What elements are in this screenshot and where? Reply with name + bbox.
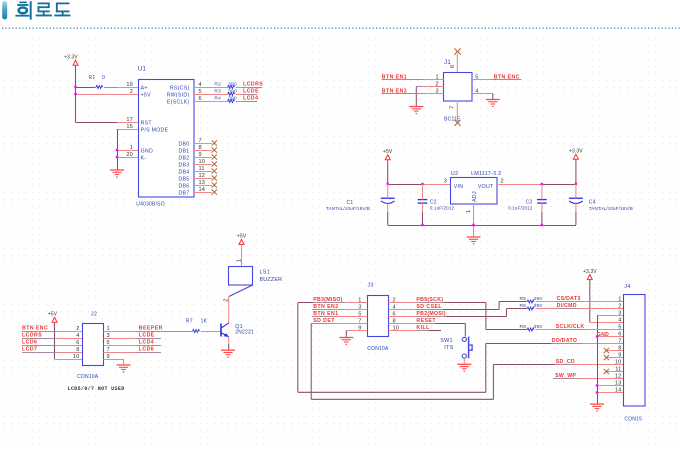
power +5V (buzzer) bbox=[237, 234, 247, 245]
junction U1 pin19 bbox=[74, 86, 76, 88]
net label BTN EN2 wire J3 pin3 bbox=[312, 304, 368, 310]
svg-text:1: 1 bbox=[236, 259, 242, 262]
wire J1 pin4 to ground bbox=[472, 94, 493, 100]
net label KILL wire J3 pin10 bbox=[388, 325, 441, 331]
capacitor C4 TANTAL/10uF/16V/B bbox=[569, 184, 633, 225]
svg-text:12: 12 bbox=[615, 373, 622, 379]
svg-text:R5: R5 bbox=[520, 296, 527, 302]
svg-text:SW1: SW1 bbox=[440, 338, 453, 344]
svg-text:5: 5 bbox=[199, 89, 202, 95]
svg-text:10: 10 bbox=[615, 359, 622, 365]
svg-text:2: 2 bbox=[501, 179, 504, 185]
svg-text:14: 14 bbox=[615, 387, 622, 393]
wire U1 pin5 to resistor bbox=[194, 94, 228, 96]
net label BEEPER wire to R7 bbox=[103, 326, 193, 332]
svg-text:CON15: CON15 bbox=[624, 416, 642, 422]
junction U1 GND pin bbox=[116, 149, 118, 151]
svg-text:7: 7 bbox=[449, 106, 455, 109]
svg-text:R4: R4 bbox=[214, 95, 221, 101]
no-connect X U1 pin 11 bbox=[212, 168, 217, 173]
net label SCLK/CLK wire to J4 pin5 bbox=[536, 324, 624, 330]
svg-text:SD_CD: SD_CD bbox=[556, 359, 575, 365]
svg-text:6: 6 bbox=[76, 340, 79, 346]
svg-text:19: 19 bbox=[126, 82, 133, 88]
svg-text:6: 6 bbox=[199, 96, 202, 102]
svg-text:LCD5/6/7 NOT USED: LCD5/6/7 NOT USED bbox=[68, 386, 125, 392]
net label LCDE wire from J2 bbox=[103, 333, 161, 339]
ground (J3 pin9) bbox=[339, 338, 353, 346]
junction C2 bottom bbox=[421, 224, 423, 226]
net label BTN EN1 wire J3 pin5 bbox=[312, 311, 368, 317]
wire U2 ADJ to ground bbox=[473, 204, 475, 237]
svg-text:2: 2 bbox=[76, 326, 79, 332]
svg-text:ITS: ITS bbox=[444, 345, 453, 351]
wire MOSI corner up to DI/CMD row bbox=[507, 309, 528, 317]
transistor Q1 2N2221 bbox=[221, 323, 254, 337]
connector J2 CON10A bbox=[73, 311, 110, 379]
svg-text:0.1uF/2012: 0.1uF/2012 bbox=[430, 206, 455, 211]
svg-text:VOUT: VOUT bbox=[478, 184, 494, 190]
capacitor C2 0.1uF/2012 bbox=[418, 184, 455, 225]
svg-text:DI/CMD: DI/CMD bbox=[557, 303, 577, 309]
svg-text:11: 11 bbox=[615, 366, 621, 372]
no-connect X J4 pin8 bbox=[604, 348, 609, 353]
svg-text:5: 5 bbox=[107, 340, 110, 346]
wire SD CSEL corner up to CS/DAT3 row bbox=[499, 302, 527, 310]
wire U1 P/S MODE to ground bbox=[117, 129, 138, 170]
svg-text:390: 390 bbox=[228, 88, 237, 94]
wire J4 pin13 stub bbox=[597, 385, 624, 387]
svg-text:J2: J2 bbox=[91, 311, 97, 317]
svg-text:CS/DAT3: CS/DAT3 bbox=[557, 296, 581, 302]
svg-text:2N2221: 2N2221 bbox=[235, 330, 254, 336]
wire J2 pin9 to ground bbox=[103, 359, 123, 365]
regulator U2 LM1117-3.3 bbox=[444, 171, 504, 213]
wire U1 DB4 stub bbox=[194, 171, 212, 173]
svg-text:10: 10 bbox=[199, 159, 206, 165]
net label LCD6 and wire to J2 bbox=[22, 340, 82, 346]
wire J4 pin9 stub bbox=[606, 357, 624, 359]
power +3.3V (J4) bbox=[583, 269, 597, 280]
wire U1 pin6 to resistor bbox=[194, 101, 228, 103]
svg-text:5: 5 bbox=[618, 324, 621, 330]
wire top rail left (VIN net) bbox=[388, 184, 450, 186]
header dotted rule bbox=[2, 27, 680, 29]
no-connect X U1 pin 13 bbox=[212, 182, 217, 187]
no-connect X U1 pin 9 bbox=[212, 154, 217, 159]
svg-text:6: 6 bbox=[450, 65, 456, 68]
resistor R7 value 1K bbox=[186, 319, 208, 333]
svg-text:BEEPER: BEEPER bbox=[139, 326, 163, 332]
svg-text:1: 1 bbox=[130, 145, 133, 151]
svg-text:DB4: DB4 bbox=[179, 169, 190, 175]
svg-text:3: 3 bbox=[444, 179, 447, 185]
svg-text:11: 11 bbox=[199, 166, 205, 172]
no-connect X J4 pin9 bbox=[604, 355, 609, 360]
svg-text:LCD4: LCD4 bbox=[243, 96, 258, 102]
wire J4 pin14 stub bbox=[597, 392, 624, 394]
svg-text:BUZZER: BUZZER bbox=[260, 277, 283, 283]
wire U1 pin19 row bbox=[76, 87, 139, 89]
svg-text:RESET: RESET bbox=[416, 318, 436, 324]
svg-text:2: 2 bbox=[130, 89, 133, 95]
svg-text:K-: K- bbox=[141, 155, 147, 161]
ground (J2 pin9) bbox=[117, 365, 131, 373]
svg-text:VIN: VIN bbox=[454, 184, 464, 190]
net label LCD6 wire from J2 bbox=[103, 347, 161, 353]
svg-text:R2: R2 bbox=[214, 81, 221, 87]
switch SW1 ITS bbox=[440, 337, 472, 359]
svg-text:390: 390 bbox=[228, 81, 237, 87]
note LCD5/6/7 NOT USED bbox=[68, 386, 125, 392]
svg-text:R6: R6 bbox=[520, 303, 527, 309]
svg-text:+3.3V: +3.3V bbox=[64, 55, 78, 61]
svg-text:7: 7 bbox=[199, 138, 202, 144]
connector J4 CON15 bbox=[615, 284, 645, 422]
svg-text:7: 7 bbox=[107, 347, 110, 353]
junction trunk pin14 bbox=[596, 391, 598, 393]
header pill icon bbox=[2, 1, 7, 20]
svg-text:LS1: LS1 bbox=[260, 269, 271, 275]
svg-text:+3.3V: +3.3V bbox=[569, 148, 583, 154]
svg-text:1: 1 bbox=[618, 296, 621, 302]
net label SW_WP wire to J4 pin12 bbox=[553, 373, 624, 379]
net label DO/DATO wire to J4 pin7 bbox=[551, 338, 624, 344]
wire J1 pin2 to ground bbox=[416, 87, 443, 107]
svg-text:PB2(MOSI): PB2(MOSI) bbox=[416, 311, 446, 317]
wire LS1 pin2 to Q1 collector bbox=[228, 297, 230, 323]
svg-text:+3.3V: +3.3V bbox=[583, 269, 597, 275]
svg-text:SW_WP: SW_WP bbox=[555, 373, 576, 379]
svg-text:GND: GND bbox=[141, 148, 153, 154]
net label PB3(MISO) wire J3 pin1 (loop to DO/DATO) bbox=[298, 297, 368, 303]
svg-text:RS(CS): RS(CS) bbox=[170, 85, 190, 91]
junction C3 bottom bbox=[541, 224, 543, 226]
wire U1 DB0 stub bbox=[194, 143, 212, 145]
junction C1 top bbox=[387, 183, 389, 185]
wire +3.3V vertical to U1 bbox=[75, 66, 77, 122]
net label BTN ENC and wire to J2 bbox=[22, 326, 82, 332]
wire +5V to LS1 pin1 bbox=[236, 245, 242, 267]
svg-text:9: 9 bbox=[107, 354, 110, 360]
svg-text:RST: RST bbox=[141, 120, 153, 126]
svg-text:LCD6: LCD6 bbox=[22, 340, 37, 346]
svg-text:3: 3 bbox=[107, 333, 110, 339]
net label GND wire J4 pin6 bbox=[597, 332, 624, 338]
svg-text:BTN ENC: BTN ENC bbox=[494, 74, 520, 80]
svg-text:8: 8 bbox=[618, 345, 621, 351]
power +3.3V (regulator) bbox=[569, 148, 583, 159]
junction C3 top bbox=[541, 183, 543, 185]
svg-text:12: 12 bbox=[199, 173, 206, 179]
junction ADJ bottom rail bbox=[472, 224, 474, 226]
no-connect X U1 pin 14 bbox=[212, 189, 217, 194]
no-connect X J1 pin 6 bbox=[454, 48, 460, 54]
capacitor C1 TANTAL/10uF/16V/B bbox=[326, 184, 395, 225]
svg-text:BTN ENC: BTN ENC bbox=[22, 326, 48, 332]
net label LCDRS and wire to J2 bbox=[22, 333, 82, 339]
svg-text:J3: J3 bbox=[368, 283, 374, 289]
wire U1 DB1 stub bbox=[194, 150, 212, 152]
resistor R5 value 390 bbox=[520, 296, 543, 303]
ground (J4 GND trunk) bbox=[590, 404, 604, 412]
ground (SW1) bbox=[457, 364, 471, 372]
wire bottom rail bbox=[388, 225, 576, 227]
wire J1 pin6 top stub bbox=[456, 54, 458, 72]
svg-text:PB5(SCK): PB5(SCK) bbox=[416, 297, 443, 303]
svg-text:8: 8 bbox=[76, 347, 79, 353]
net label CS/DAT3 wire to J4 pin1 bbox=[536, 296, 624, 302]
svg-text:U4030B/SO: U4030B/SO bbox=[136, 202, 164, 208]
wire and net label LCDRS bbox=[236, 82, 263, 88]
wire J4 pin3 to GND trunk bbox=[597, 316, 624, 337]
svg-text:17: 17 bbox=[126, 117, 133, 123]
wire and net label LCD4 bbox=[236, 96, 258, 102]
svg-text:9: 9 bbox=[618, 352, 621, 358]
wire U2 VOUT rail right bbox=[497, 184, 576, 186]
svg-text:TANTAL/10uF/16V/B: TANTAL/10uF/16V/B bbox=[589, 206, 633, 211]
wire J4 pin11 stub bbox=[606, 371, 624, 373]
resistor R8 value 390 bbox=[520, 324, 543, 331]
svg-text:1: 1 bbox=[466, 210, 472, 213]
svg-text:3: 3 bbox=[618, 310, 621, 316]
wire RESET down to SW1 bbox=[464, 324, 466, 337]
IC U1 U4030B/SO bbox=[126, 67, 205, 208]
wire U1 DB7 stub bbox=[194, 192, 212, 194]
svg-text:U1: U1 bbox=[138, 67, 147, 73]
net label RESET wire J3 pin8 to SW1 bbox=[388, 318, 465, 324]
wire R7 to Q1 base bbox=[201, 331, 221, 333]
svg-text:13: 13 bbox=[199, 180, 206, 186]
svg-text:DB2: DB2 bbox=[179, 155, 190, 161]
junction C4 top bbox=[575, 183, 577, 185]
junction C2 top bbox=[421, 183, 423, 185]
net label BTN EN1 and wire to J1 pin1 bbox=[382, 74, 444, 80]
no-connect X J1 pin 7 bbox=[454, 120, 460, 126]
svg-text:20: 20 bbox=[126, 152, 133, 158]
svg-text:LCDRS: LCDRS bbox=[22, 333, 42, 339]
svg-text:CON10A: CON10A bbox=[77, 374, 99, 380]
resistor R1 value 0 bbox=[89, 75, 106, 88]
wire U1 DB2 stub bbox=[194, 157, 212, 159]
svg-text:+5V: +5V bbox=[141, 92, 152, 98]
svg-text:SD DET: SD DET bbox=[313, 318, 335, 324]
svg-text:R7: R7 bbox=[186, 319, 193, 325]
svg-text:LCDE: LCDE bbox=[139, 333, 155, 339]
svg-text:DO/DATO: DO/DATO bbox=[552, 338, 578, 344]
net label PB5(SCK) wire J3 pin2 to SCLK bbox=[388, 297, 486, 303]
svg-text:14: 14 bbox=[199, 187, 206, 193]
ground (U2 ADJ) bbox=[467, 237, 481, 245]
net label SD CSEL wire J3 pin4 bbox=[388, 304, 499, 310]
svg-text:DB6: DB6 bbox=[179, 183, 190, 189]
junction U1 pin2 bbox=[74, 93, 76, 95]
svg-text:J4: J4 bbox=[624, 284, 630, 290]
svg-text:DB0: DB0 bbox=[179, 141, 190, 147]
svg-text:R8: R8 bbox=[520, 324, 527, 330]
svg-text:DB3: DB3 bbox=[179, 162, 190, 168]
svg-text:DB5: DB5 bbox=[179, 176, 190, 182]
wire GND trunk down to ground bbox=[597, 337, 599, 405]
svg-text:+5V: +5V bbox=[48, 311, 58, 317]
wire loop SD DET: down/right/up to J4 pin10 bbox=[311, 324, 555, 400]
power +3.3V (U1 area) bbox=[64, 55, 78, 66]
svg-text:PB3(MISO): PB3(MISO) bbox=[313, 297, 343, 303]
net label LCD7 and wire to J2 bbox=[22, 347, 82, 353]
net label PB2(MOSI) wire J3 pin6 bbox=[388, 311, 506, 317]
buzzer LS1 bbox=[223, 267, 282, 302]
net label DI/CMD wire to J4 pin2 bbox=[536, 303, 624, 309]
wire U1 DB3 stub bbox=[194, 164, 212, 166]
svg-text:LCDRS: LCDRS bbox=[243, 82, 263, 88]
svg-text:LM1117-3.3: LM1117-3.3 bbox=[471, 171, 501, 177]
svg-text:LCD6: LCD6 bbox=[139, 347, 154, 353]
svg-text:KILL: KILL bbox=[416, 325, 430, 331]
svg-text:4: 4 bbox=[199, 82, 202, 88]
junction U1 K- pin bbox=[116, 156, 118, 158]
ground (J1 right) bbox=[486, 100, 500, 108]
resistor R2 value 390 bbox=[214, 81, 237, 88]
svg-text:ADJ: ADJ bbox=[472, 191, 478, 202]
svg-text:8: 8 bbox=[199, 145, 202, 151]
svg-text:1K: 1K bbox=[201, 319, 208, 325]
no-connect X U1 pin 12 bbox=[212, 175, 217, 180]
header title 회로도 (Circuit Diagram) bbox=[15, 1, 70, 19]
no-connect X U1 pin 10 bbox=[212, 161, 217, 166]
svg-text:E(SCLK): E(SCLK) bbox=[167, 99, 190, 105]
svg-text:9: 9 bbox=[199, 152, 202, 158]
svg-text:4: 4 bbox=[76, 333, 79, 339]
wire SCK corner down to SCLK row bbox=[486, 303, 527, 330]
wire U1 DB5 stub bbox=[194, 178, 212, 180]
svg-text:7: 7 bbox=[618, 338, 621, 344]
wire U1 pin4 to resistor bbox=[194, 87, 228, 89]
ground (Q1 emitter) bbox=[221, 350, 235, 358]
wire J4 pin8 stub bbox=[606, 350, 624, 352]
svg-text:GND: GND bbox=[597, 332, 609, 338]
wire Q1 emitter to ground bbox=[228, 337, 230, 350]
wire +3.3V down to J4 pin4 bbox=[590, 280, 624, 322]
svg-text:10: 10 bbox=[73, 354, 80, 360]
junction trunk pin13 bbox=[596, 384, 598, 386]
wire SW1 to ground bbox=[463, 358, 465, 364]
wire J1 pin7 bottom stub bbox=[456, 101, 458, 123]
net label SD DET wire J3 pin7 (loop to SD_CD) bbox=[311, 318, 367, 324]
ground (J1 left) bbox=[409, 107, 423, 115]
capacitor C3 0.1uF/2012 bbox=[508, 184, 546, 225]
svg-text:+5V: +5V bbox=[237, 234, 247, 240]
svg-text:LCD7: LCD7 bbox=[22, 347, 37, 353]
resistor R6 value 390 bbox=[520, 303, 543, 310]
svg-text:15: 15 bbox=[126, 124, 133, 130]
resistor R3 value 390 bbox=[214, 88, 237, 95]
svg-text:BTN EN2: BTN EN2 bbox=[313, 304, 338, 310]
wire J3 pin9 to ground bbox=[346, 331, 367, 338]
net label BTN ENC and wire to J1 pin5 bbox=[472, 74, 521, 80]
svg-text:P/S MODE: P/S MODE bbox=[141, 127, 169, 133]
no-connect X U1 pin 8 bbox=[212, 147, 217, 152]
svg-text:LCD4: LCD4 bbox=[139, 340, 154, 346]
svg-text:A+: A+ bbox=[141, 85, 148, 91]
svg-text:390: 390 bbox=[228, 95, 237, 101]
connector J3 CON10A bbox=[358, 283, 399, 353]
svg-text:+5V: +5V bbox=[383, 149, 393, 155]
wire U1 RST row bbox=[76, 122, 139, 124]
no-connect X U1 pin 7 bbox=[212, 140, 217, 145]
ground (U1) bbox=[110, 170, 124, 178]
svg-text:LCDE: LCDE bbox=[243, 89, 259, 95]
junction GND trunk pin6 bbox=[596, 335, 598, 337]
svg-text:0: 0 bbox=[102, 75, 105, 81]
svg-text:1: 1 bbox=[107, 326, 110, 332]
svg-text:DB1: DB1 bbox=[179, 148, 190, 154]
svg-text:R3: R3 bbox=[214, 88, 221, 94]
svg-text:2: 2 bbox=[618, 303, 621, 309]
resistor R4 value 390 bbox=[214, 95, 237, 102]
connector J1 BC11E bbox=[435, 60, 478, 122]
svg-text:TANTAL/10uF/16V/B: TANTAL/10uF/16V/B bbox=[326, 206, 370, 211]
wire U1 DB6 stub bbox=[194, 185, 212, 187]
net label SD_CD wire to J4 pin10 bbox=[555, 359, 624, 365]
svg-text:DB7: DB7 bbox=[179, 190, 190, 196]
svg-text:SCLK/CLK: SCLK/CLK bbox=[556, 324, 585, 330]
svg-text:RW(SID): RW(SID) bbox=[167, 92, 190, 98]
svg-text:C4: C4 bbox=[589, 199, 596, 205]
svg-text:4: 4 bbox=[618, 317, 621, 323]
net label BTN EN2 and wire to J1 pin3 bbox=[382, 89, 444, 95]
net label LCD4 wire from J2 bbox=[103, 340, 161, 346]
wire and net label LCDE bbox=[236, 89, 259, 95]
svg-text:13: 13 bbox=[615, 380, 622, 386]
wire U1 pin2 row bbox=[76, 94, 139, 96]
no-connect X J4 pin11 bbox=[604, 369, 609, 374]
svg-text:R1: R1 bbox=[89, 75, 96, 81]
svg-text:0.1uF/2012: 0.1uF/2012 bbox=[508, 206, 533, 211]
wire +5V down to J2 pin10 bbox=[55, 323, 83, 360]
wire loop MISO: left/down/right/up to J4 pin7 bbox=[298, 303, 551, 393]
svg-text:SD CSEL: SD CSEL bbox=[416, 304, 442, 310]
svg-text:BTN EN1: BTN EN1 bbox=[313, 311, 338, 317]
wire +3.3V down to rail bbox=[575, 160, 577, 184]
svg-text:6: 6 bbox=[618, 331, 621, 337]
wire +5V down to rail bbox=[387, 160, 389, 184]
power +5V (J2) bbox=[48, 311, 58, 322]
power +5V (regulator) bbox=[383, 149, 393, 160]
svg-text:U2: U2 bbox=[451, 171, 459, 177]
svg-text:CON10A: CON10A bbox=[367, 346, 389, 352]
